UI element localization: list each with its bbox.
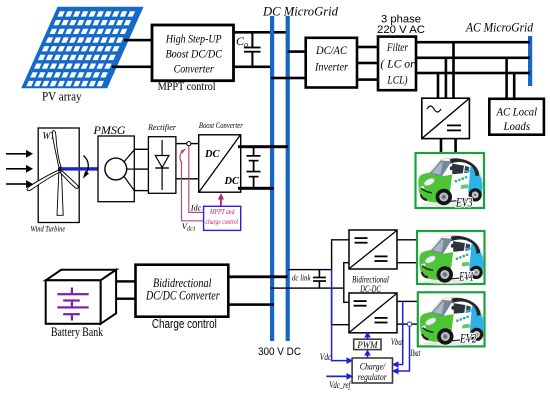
node wire converter1 bottom-left / converter2 top-left bbox=[344, 263, 349, 303]
boost output bus bar (bottom) bbox=[238, 187, 274, 190]
sense wire Idc to MPPT bbox=[189, 146, 204, 213]
EV1 box bbox=[417, 231, 485, 284]
EV3 box bbox=[416, 153, 485, 209]
AC local loads box bbox=[489, 99, 544, 135]
sense node circle on EV2 wire bbox=[407, 322, 411, 326]
svg-text:300 V DC: 300 V DC bbox=[258, 346, 301, 358]
node wire converter2 bottom-left bbox=[332, 288, 349, 325]
svg-text:DC: DC bbox=[224, 175, 240, 187]
PMSG generator bbox=[92, 125, 134, 202]
wire PV to converter (top) bbox=[124, 39, 152, 42]
sense wire Vdc to MPPT bbox=[182, 161, 204, 221]
svg-text:Vdc_ref: Vdc_ref bbox=[329, 380, 351, 390]
Vdc_ref arrow bbox=[326, 376, 347, 378]
svg-text:PWM: PWM bbox=[356, 341, 378, 351]
svg-text:Vbat: Vbat bbox=[391, 337, 404, 347]
svg-text:LCL): LCL) bbox=[387, 75, 408, 87]
wire DC bus to inverter (top) bbox=[288, 50, 306, 53]
wire inverter to filter phase C bbox=[357, 78, 378, 81]
svg-text:Battery Bank: Battery Bank bbox=[51, 325, 104, 339]
svg-text:Idc: Idc bbox=[190, 203, 202, 213]
wire bidirectional converter to DC bus (bottom) bbox=[228, 303, 274, 306]
svg-text:Boost Converter: Boost Converter bbox=[199, 120, 243, 130]
wire inverter to filter phase B bbox=[357, 62, 378, 65]
svg-text:dc link: dc link bbox=[292, 273, 311, 283]
svg-text:High Step-UP: High Step-UP bbox=[165, 34, 222, 46]
svg-text:AC MicroGrid: AC MicroGrid bbox=[465, 21, 534, 35]
wire inverter to filter phase A bbox=[357, 46, 378, 49]
svg-text:Loads: Loads bbox=[503, 119, 531, 133]
rotation arrow bbox=[84, 156, 89, 175]
svg-text:PMSG: PMSG bbox=[92, 125, 126, 137]
wire converter1 to EV1 (bottom) bbox=[397, 262, 417, 263]
Ibat sense wire bbox=[398, 326, 410, 371]
svg-text:DC/DC Converter: DC/DC Converter bbox=[145, 288, 220, 302]
svg-text:regulator: regulator bbox=[358, 373, 387, 383]
drop wire to charger phase C bbox=[437, 72, 440, 98]
wire DC bus to inverter (bottom) bbox=[271, 77, 306, 80]
svg-text:( LC or: ( LC or bbox=[380, 58, 415, 70]
AC bus bar bbox=[528, 36, 532, 86]
svg-text:Converter: Converter bbox=[174, 63, 215, 75]
shaft (blue) bbox=[61, 167, 106, 170]
wire PMSG to rectifier phase C bbox=[134, 190, 148, 191]
DC link capacitors (two in series) bbox=[247, 148, 261, 188]
svg-text:220 V AC: 220 V AC bbox=[377, 24, 425, 36]
svg-text:Charge control: Charge control bbox=[152, 317, 217, 331]
svg-text:DC: DC bbox=[204, 148, 220, 160]
wire battery to bidirectional converter (bottom) bbox=[116, 298, 135, 300]
dc link wire (top rail) bbox=[288, 269, 333, 270]
svg-text:Ibat: Ibat bbox=[410, 348, 421, 358]
dc link wire (bottom rail) bbox=[271, 287, 345, 288]
wind arrows bbox=[6, 150, 33, 188]
drop wire to AC local loads (phase C) bbox=[513, 72, 516, 99]
bidirectional DC/DC converter box bbox=[136, 265, 229, 317]
wire rectifier to boost (top) bbox=[176, 143, 199, 144]
EV2 bidirectional DC-DC converter bbox=[349, 293, 397, 333]
drop wire to AC local loads (phase B) bbox=[505, 57, 508, 99]
wire PV to converter (bottom) bbox=[112, 66, 152, 69]
MPPT and charge control box bbox=[204, 206, 241, 230]
wire PMSG to rectifier phase B bbox=[134, 168, 148, 169]
inverter DC/AC bbox=[306, 38, 357, 88]
boost converter bbox=[199, 120, 244, 192]
wire filter out phase B bbox=[416, 57, 530, 60]
wire converter to DC bus (top) bbox=[234, 31, 290, 34]
svg-text:MPPT control: MPPT control bbox=[158, 79, 217, 93]
wire converter to DC bus (bottom) bbox=[234, 66, 274, 69]
Vbat sense wire bbox=[398, 302, 403, 365]
boost output bus bar (top) bbox=[238, 145, 288, 148]
node wire converter1 top-left bbox=[332, 240, 349, 270]
battery symbol bbox=[57, 288, 88, 321]
svg-text:Inverter: Inverter bbox=[314, 62, 348, 74]
wire charger to EV3 (right) bbox=[454, 139, 457, 154]
wire rectifier to boost (bottom) bbox=[176, 178, 199, 179]
wire battery to bidirectional converter (top) bbox=[116, 280, 135, 282]
svg-text:AC Local: AC Local bbox=[496, 105, 538, 119]
wire filter out phase A bbox=[416, 41, 530, 44]
wire bidirectional converter to DC bus (top) bbox=[228, 275, 287, 278]
svg-text:PV array: PV array bbox=[42, 89, 82, 104]
svg-text:EV1: EV1 bbox=[459, 268, 474, 283]
svg-text:Wind Turbine: Wind Turbine bbox=[31, 223, 66, 233]
wire filter out phase C bbox=[416, 72, 530, 75]
MPPT control arrow to boost bbox=[220, 199, 222, 207]
svg-text:Rectifier: Rectifier bbox=[147, 122, 177, 132]
current sense node Idc bbox=[187, 142, 191, 146]
svg-text:charge control: charge control bbox=[206, 217, 239, 226]
svg-text:Vdc: Vdc bbox=[320, 352, 332, 362]
svg-text:DC/AC: DC/AC bbox=[315, 45, 347, 57]
drop wire to charger phase B bbox=[445, 57, 448, 98]
wind turbine box WT bbox=[38, 128, 79, 223]
voltage sense hook Vdc bbox=[180, 150, 184, 163]
rectifier bbox=[147, 122, 177, 193]
battery bank (3D box) bbox=[46, 270, 116, 324]
wire charger to EV3 (left) bbox=[440, 139, 443, 154]
svg-text:MPPT and: MPPT and bbox=[209, 207, 234, 216]
wire converter2 to EV2 (bottom) bbox=[397, 323, 418, 324]
wire PMSG to rectifier phase A bbox=[134, 149, 148, 150]
filter box bbox=[378, 37, 416, 91]
turbine rotor blades bbox=[27, 131, 78, 216]
EV2 box bbox=[418, 292, 485, 346]
arrow PWM to converter2 bbox=[367, 336, 369, 339]
dc link capacitor bbox=[313, 270, 326, 288]
PWM box bbox=[354, 339, 381, 351]
EV3 charger AC/DC converter bbox=[422, 98, 470, 138]
svg-text:Charge/: Charge/ bbox=[360, 363, 387, 373]
arrow charge regulator to PWM bbox=[367, 355, 369, 359]
charge regulator box bbox=[352, 358, 392, 383]
svg-text:EV3: EV3 bbox=[455, 194, 473, 209]
svg-text:Boost DC/DC: Boost DC/DC bbox=[165, 49, 222, 61]
svg-text:Filter: Filter bbox=[386, 42, 408, 54]
drop wire to charger phase A bbox=[452, 42, 455, 99]
wire converter2 to EV2 (top) bbox=[397, 301, 418, 302]
capacitor Co bbox=[236, 33, 261, 67]
EV1 bidirectional DC-DC converter bbox=[349, 230, 397, 269]
DC bus line 1 bbox=[270, 16, 274, 341]
Vdc sense wire (blue) bbox=[332, 270, 347, 361]
wire converter1 to EV1 (top) bbox=[397, 239, 417, 240]
DC bus line 2 bbox=[286, 16, 290, 341]
PV array bbox=[21, 7, 143, 104]
converter: High Step-UP Boost DC/DC bbox=[152, 25, 234, 81]
svg-text:EV2: EV2 bbox=[459, 331, 477, 346]
